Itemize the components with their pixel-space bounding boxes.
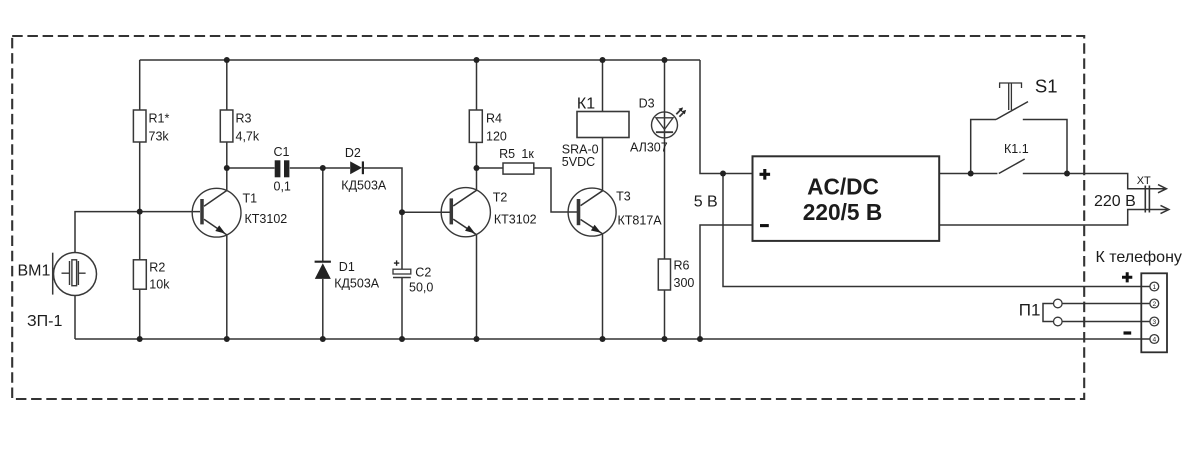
wire phone plus feed — [723, 174, 1150, 287]
svg-text:D1: D1 — [339, 260, 355, 274]
arrowhead upper XT — [1158, 185, 1166, 193]
junction S1 right riser — [1064, 171, 1070, 177]
junction ground R6 — [662, 336, 668, 342]
transistor T2 — [441, 188, 490, 237]
svg-text:4,7k: 4,7k — [236, 130, 260, 144]
svg-text:AC/DC: AC/DC — [807, 173, 879, 199]
wire T2 emitter — [453, 219, 476, 339]
svg-text:S1: S1 — [1035, 76, 1058, 97]
svg-text:АЛ307: АЛ307 — [630, 140, 668, 154]
svg-text:КД503А: КД503А — [334, 277, 380, 291]
wire 220V upper line with K1.1 gap — [939, 174, 1164, 189]
wire mic bottom lead — [74, 296, 76, 340]
junction ground C2 — [399, 336, 405, 342]
svg-text:3: 3 — [1152, 319, 1156, 326]
minus mark phone line — [1124, 331, 1132, 334]
transistor T1 — [192, 188, 241, 237]
svg-text:220 В: 220 В — [1094, 193, 1136, 210]
svg-text:К1.1: К1.1 — [1004, 142, 1029, 156]
wire +5V riser to converter — [700, 60, 753, 174]
wire bottom ground bus — [75, 338, 1150, 340]
svg-text:2: 2 — [1152, 301, 1156, 308]
label AC/DC text — [803, 173, 882, 224]
wire T2 base line — [402, 211, 450, 213]
junction D2 D1 — [320, 165, 326, 171]
junction ground minus return — [697, 336, 703, 342]
wire T1 emitter — [204, 219, 227, 339]
wire T1 collector — [204, 168, 227, 206]
junction S1 left riser — [968, 171, 974, 177]
junction top bus K1 — [600, 57, 606, 63]
junction plus output — [720, 171, 726, 177]
svg-text:КТ3102: КТ3102 — [494, 213, 537, 227]
relay K1 coil — [577, 112, 629, 138]
svg-text:C1: C1 — [274, 145, 290, 159]
svg-text:120: 120 — [486, 130, 507, 144]
svg-text:T1: T1 — [243, 192, 258, 206]
plus mark converter output — [760, 169, 771, 180]
svg-text:300: 300 — [674, 276, 695, 290]
resistor R6 — [658, 259, 670, 290]
bracket of plug P1 — [1043, 304, 1054, 322]
svg-text:К1: К1 — [577, 96, 595, 113]
resistor R2 — [133, 260, 146, 289]
diode D1 — [315, 262, 331, 279]
svg-text:10k: 10k — [149, 278, 170, 292]
svg-text:R6: R6 — [674, 259, 690, 273]
wire top +5V bus — [140, 59, 700, 61]
svg-text:ВМ1: ВМ1 — [18, 263, 51, 280]
junction ground D1 — [320, 336, 326, 342]
button actuator S1 — [1000, 83, 1022, 110]
svg-text:R2: R2 — [149, 261, 165, 275]
svg-text:73k: 73k — [149, 130, 170, 144]
plus mark phone line — [1122, 272, 1132, 282]
labels small components — [149, 96, 1029, 294]
svg-text:4: 4 — [1152, 337, 1156, 344]
minus mark converter output — [760, 224, 769, 227]
svg-text:T3: T3 — [616, 190, 631, 204]
svg-text:C2: C2 — [415, 266, 431, 280]
junction T1 base R1 — [137, 209, 143, 215]
resistor R1 — [133, 110, 146, 142]
junction top bus R3 — [224, 57, 230, 63]
junction ground T2 emitter — [474, 336, 480, 342]
junction ground R2 — [137, 336, 143, 342]
svg-text:5 В: 5 В — [694, 194, 718, 211]
wire R5 net to T3 base — [477, 168, 579, 212]
svg-text:R3: R3 — [236, 112, 252, 126]
svg-text:R5: R5 — [499, 147, 515, 161]
junction T2 base C2 — [399, 209, 405, 215]
dashed enclosure border — [12, 36, 1084, 399]
contact blade K1.1 — [999, 159, 1025, 174]
junction ground T3 emitter — [600, 336, 606, 342]
svg-text:R1*: R1* — [149, 112, 170, 126]
wire R4 column — [476, 60, 478, 168]
wire S1 branch risers — [971, 120, 1067, 174]
wire R1 column — [139, 60, 141, 339]
resistor R3 — [220, 110, 233, 142]
wire C2 column — [401, 212, 403, 339]
junction R4 R5 — [474, 165, 480, 171]
contact blade S1 — [996, 102, 1028, 120]
wire P1 plug to terminals — [1062, 304, 1150, 322]
plug P1 pins — [1054, 299, 1063, 308]
svg-text:D2: D2 — [345, 146, 361, 160]
wire R3 column — [226, 60, 228, 168]
svg-text:50,0: 50,0 — [409, 281, 433, 295]
svg-text:1к: 1к — [521, 147, 534, 161]
connector XT double bars — [1145, 186, 1149, 213]
svg-text:КТ3102: КТ3102 — [245, 212, 288, 226]
wire T3 collector — [581, 138, 603, 206]
wire C1-D2 net — [227, 168, 402, 212]
wire minus return from converter — [700, 225, 753, 339]
transistor T3 — [568, 188, 616, 236]
wire 220V lower line — [939, 210, 1167, 226]
microphone BM1 — [53, 253, 97, 296]
diode D2 — [350, 161, 363, 174]
junction R3 C1 — [224, 165, 230, 171]
wire T3 emitter — [581, 220, 603, 340]
junction top bus R4 — [474, 57, 480, 63]
wire K1 relay column — [602, 60, 604, 112]
svg-text:КД503А: КД503А — [341, 179, 387, 193]
svg-text:T2: T2 — [493, 191, 508, 205]
svg-text:ЗП-1: ЗП-1 — [27, 313, 62, 330]
svg-text:D3: D3 — [639, 96, 655, 110]
svg-text:1: 1 — [1152, 284, 1156, 291]
wire T1 base line — [75, 212, 200, 253]
capacitor C1 — [275, 160, 290, 177]
wire D3-R6 column — [664, 60, 666, 339]
resistor R4 — [469, 110, 482, 142]
svg-text:П1: П1 — [1019, 300, 1041, 319]
capacitor C2 — [393, 260, 411, 277]
svg-text:0,1: 0,1 — [274, 180, 291, 194]
LED D3 — [652, 107, 687, 137]
junction ground T1 emitter — [224, 336, 230, 342]
wire D1 column — [322, 168, 324, 339]
svg-text:КТ817А: КТ817А — [618, 214, 663, 228]
terminal block XT phone — [1141, 273, 1167, 352]
resistor R5 — [503, 163, 534, 174]
junction top bus D3 — [662, 57, 668, 63]
svg-text:ХТ: ХТ — [1137, 175, 1151, 187]
svg-text:220/5 В: 220/5 В — [803, 199, 882, 225]
wire T2 collector — [453, 168, 476, 206]
svg-text:К телефону: К телефону — [1096, 249, 1182, 266]
AC/DC converter box U1 — [753, 156, 940, 241]
arrowhead lower XT — [1161, 205, 1169, 213]
svg-text:5VDC: 5VDC — [562, 155, 595, 169]
svg-text:R4: R4 — [486, 112, 502, 126]
